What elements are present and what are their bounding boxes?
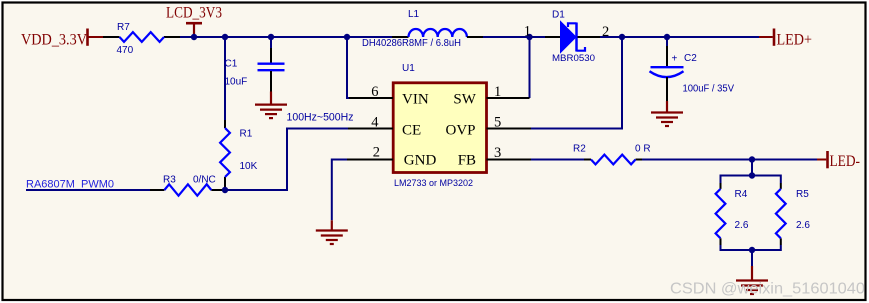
svg-text:R7: R7 (117, 22, 130, 33)
svg-text:MBR0530: MBR0530 (552, 53, 595, 64)
svg-text:6: 6 (371, 84, 378, 100)
svg-text:R2: R2 (573, 143, 586, 154)
port LED- (817, 151, 860, 170)
resistor R2 (573, 143, 651, 164)
svg-text:5: 5 (494, 115, 501, 131)
junction OVP branch (619, 34, 625, 40)
svg-text:2: 2 (373, 144, 380, 160)
svg-text:10uF: 10uF (225, 76, 248, 87)
resistor R3 (150, 174, 225, 195)
wire R2 to LED- (642, 159, 817, 161)
svg-text:OVP: OVP (446, 123, 476, 139)
svg-text:CE: CE (402, 123, 421, 139)
junction top of C1 branch (268, 34, 274, 40)
svg-text:3: 3 (494, 145, 501, 161)
svg-text:LED-: LED- (830, 153, 861, 170)
junction parallel top (749, 172, 755, 178)
resistor R4 (716, 183, 749, 245)
junction parallel bottom (749, 247, 755, 253)
wire ground stem (751, 250, 753, 266)
svg-text:1: 1 (524, 23, 531, 39)
svg-text:R3: R3 (163, 174, 176, 185)
wire top rail left (180, 36, 392, 38)
junction VIN branch (344, 34, 350, 40)
svg-text:GND: GND (404, 152, 437, 168)
svg-text:VIN: VIN (402, 92, 429, 108)
capacitor C2 (650, 46, 735, 101)
wire drop to parallel network (751, 160, 753, 176)
svg-text:CSDN @weixin_51601040: CSDN @weixin_51601040 (670, 281, 865, 298)
svg-text:4: 4 (371, 115, 379, 131)
svg-text:RA6807M_PWM0: RA6807M_PWM0 (26, 178, 114, 190)
svg-text:2.6: 2.6 (796, 220, 810, 231)
junction SW branch (526, 34, 532, 40)
svg-text:U1: U1 (402, 63, 415, 74)
port VDD_3.3V (21, 29, 103, 49)
wire stub to C2 (666, 37, 668, 48)
svg-text:100uF / 35V: 100uF / 35V (683, 83, 735, 94)
capacitor C1 (225, 48, 285, 92)
wire top rail mid (483, 36, 545, 38)
svg-text:L1: L1 (408, 9, 420, 20)
svg-text:R5: R5 (796, 189, 809, 200)
svg-text:470: 470 (117, 45, 134, 56)
svg-text:VDD_3.3V: VDD_3.3V (21, 32, 88, 49)
junction top of R1 branch (222, 34, 228, 40)
svg-text:C2: C2 (684, 53, 697, 64)
svg-text:10K: 10K (240, 161, 258, 172)
wire VIN branch (347, 37, 350, 98)
svg-text:C1: C1 (225, 58, 238, 69)
op-amp U1 (347, 63, 531, 189)
ground under C1 (255, 92, 287, 119)
svg-text:2.6: 2.6 (735, 220, 749, 231)
svg-text:DH40286R8MF / 6.8uH: DH40286R8MF / 6.8uH (362, 38, 461, 49)
diode D1 (524, 9, 610, 64)
svg-text:+: + (672, 54, 678, 65)
junction R2/LED-/parallel (749, 156, 755, 162)
wire stub to C1 (270, 37, 272, 48)
resistor R7 (103, 22, 180, 56)
wire parallel top rail (721, 176, 781, 184)
resistor R5 (776, 183, 810, 245)
junction C2 branch (664, 34, 670, 40)
port LED+ (759, 29, 812, 49)
svg-text:FB: FB (458, 152, 476, 168)
svg-text:R1: R1 (240, 128, 253, 139)
ground under C2 (651, 101, 683, 126)
wire down to R1 (224, 37, 226, 120)
ground under R4 R5 (736, 266, 768, 294)
resistor R1 (220, 120, 258, 190)
wire PWM input (26, 189, 150, 191)
wire FB to R2 (531, 159, 584, 161)
wire top rail right (600, 36, 759, 38)
junction R3/R1/CE (222, 187, 228, 193)
svg-text:R4: R4 (735, 189, 748, 200)
ground under U1 GND (316, 220, 348, 244)
svg-text:LCD_3V3: LCD_3V3 (166, 5, 222, 22)
wire GND branch (332, 160, 347, 221)
wire CE path (225, 129, 349, 191)
svg-text:LM2733 or MP3202: LM2733 or MP3202 (394, 178, 473, 189)
svg-text:0/NC: 0/NC (193, 174, 216, 185)
junction at LCD_3V3 (191, 34, 197, 40)
wire parallel bottom rail (721, 245, 781, 250)
svg-text:100Hz~500Hz: 100Hz~500Hz (287, 111, 354, 123)
power port LCD_3V3 (166, 5, 222, 38)
svg-text:1: 1 (494, 84, 501, 100)
svg-text:0 R: 0 R (635, 143, 651, 154)
svg-text:LED+: LED+ (777, 32, 813, 49)
svg-text:SW: SW (453, 92, 476, 108)
wire OVP branch (531, 37, 622, 129)
wire SW branch (529, 37, 531, 98)
inductor L1 (362, 9, 483, 49)
svg-text:D1: D1 (552, 9, 565, 20)
